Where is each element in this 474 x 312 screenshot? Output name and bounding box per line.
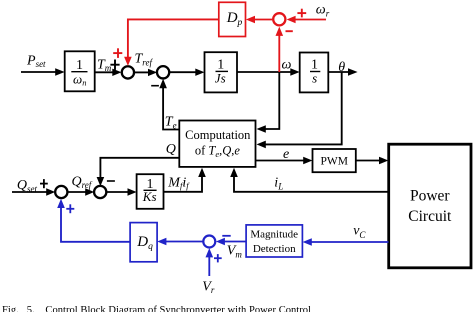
svg-text:Circuit: Circuit — [408, 208, 452, 225]
svg-text:Detection: Detection — [253, 243, 296, 255]
svg-text:Power: Power — [410, 188, 450, 205]
svg-text:Ks: Ks — [142, 189, 157, 204]
svg-text:Computation: Computation — [185, 128, 251, 142]
svg-text:e: e — [283, 147, 289, 162]
svg-text:ω: ω — [282, 58, 292, 73]
svg-text:Magnitude: Magnitude — [250, 228, 298, 240]
svg-text:θ: θ — [338, 60, 345, 75]
svg-text:PWM: PWM — [320, 155, 347, 167]
svg-text:s: s — [312, 71, 317, 86]
svg-text:Js: Js — [215, 70, 226, 85]
svg-text:Q: Q — [166, 142, 176, 157]
svg-text:Fig. 5. Control Block Dia: Fig. 5. Control Block Diagram of Synchro… — [2, 305, 311, 312]
